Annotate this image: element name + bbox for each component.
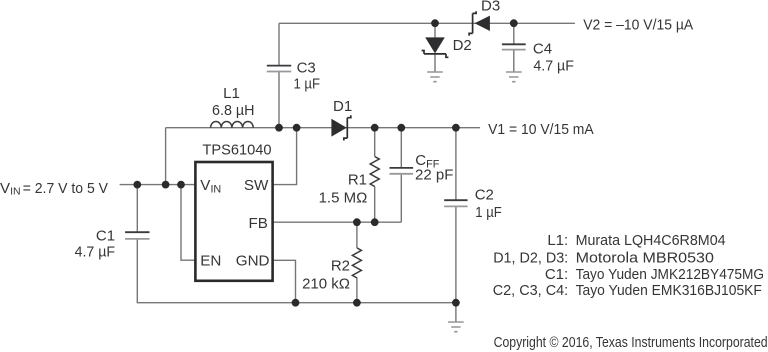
svg-text:FB: FB <box>248 215 267 232</box>
svg-text:Motorola MBR0530: Motorola MBR0530 <box>576 249 714 266</box>
svg-text:R2: R2 <box>331 257 350 274</box>
svg-text:R1: R1 <box>348 171 367 188</box>
svg-text:C2: C2 <box>475 187 494 204</box>
svg-text:C1: C1 <box>96 227 115 244</box>
svg-text:1.5 MΩ: 1.5 MΩ <box>319 189 368 206</box>
svg-text:D2: D2 <box>453 37 472 54</box>
svg-text:Tayo Yuden EMK316BJ105KF: Tayo Yuden EMK316BJ105KF <box>576 282 762 299</box>
svg-text:Murata LQH4C6R8M04: Murata LQH4C6R8M04 <box>576 232 726 249</box>
svg-text:V1 = 10 V/15 mA: V1 = 10 V/15 mA <box>488 121 594 138</box>
svg-text:TPS61040: TPS61040 <box>203 141 272 158</box>
svg-text:= 2.7 V to 5 V: = 2.7 V to 5 V <box>23 180 108 197</box>
svg-text:C2, C3, C4:: C2, C3, C4: <box>493 282 569 299</box>
svg-text:L1:: L1: <box>547 232 568 249</box>
svg-text:V: V <box>0 180 10 197</box>
svg-text:6.8 µH: 6.8 µH <box>212 102 255 119</box>
svg-text:C1:: C1: <box>545 266 568 283</box>
svg-text:210 kΩ: 210 kΩ <box>302 275 350 292</box>
svg-text:L1: L1 <box>223 85 240 102</box>
svg-text:D3: D3 <box>481 0 500 14</box>
svg-text:4.7 µF: 4.7 µF <box>533 58 574 75</box>
svg-text:SW: SW <box>244 177 269 194</box>
svg-text:IN: IN <box>10 186 21 198</box>
svg-text:D1, D2, D3:: D1, D2, D3: <box>493 249 568 266</box>
svg-text:D1: D1 <box>333 98 352 115</box>
svg-text:EN: EN <box>200 253 221 270</box>
svg-text:GND: GND <box>236 253 270 270</box>
svg-text:V2 = –10 V/15 µA: V2 = –10 V/15 µA <box>583 16 693 33</box>
svg-text:22 pF: 22 pF <box>415 166 453 183</box>
svg-text:1 µF: 1 µF <box>475 204 502 221</box>
svg-text:Copyright © 2016, Texas Instru: Copyright © 2016, Texas Instruments Inco… <box>494 335 768 351</box>
svg-text:C3: C3 <box>297 60 316 77</box>
svg-text:1 µF: 1 µF <box>294 76 321 93</box>
svg-text:C4: C4 <box>533 40 552 57</box>
svg-text:4.7 µF: 4.7 µF <box>75 243 116 260</box>
svg-text:Tayo Yuden JMK212BY475MG: Tayo Yuden JMK212BY475MG <box>576 266 765 283</box>
